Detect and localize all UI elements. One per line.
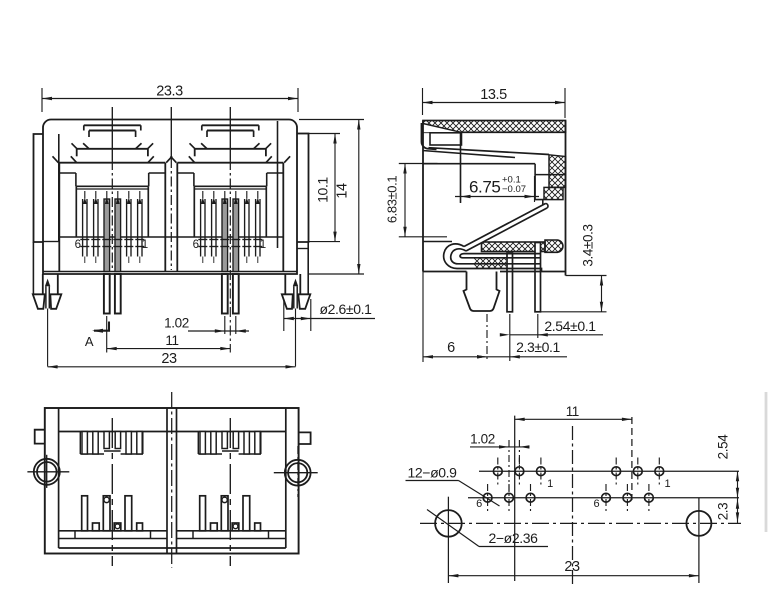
port contact cavity [194, 185, 266, 187]
side view: hatched step block [544, 187, 563, 199]
dimension 10.1 [334, 134, 336, 242]
pcb dimension 1.02 [508, 440, 510, 493]
dimension 23.3 extension lines [41, 88, 43, 112]
bottom view: inner top wall line [59, 431, 286, 433]
bottom view: left mount post circles [34, 459, 60, 485]
port inner groove [59, 172, 76, 174]
svg-text:1.02: 1.02 [470, 432, 495, 447]
front view: right side flange [297, 134, 309, 243]
port long solder legs [104, 274, 110, 314]
svg-text:10.1: 10.1 [315, 177, 331, 203]
side view: solder pin A [507, 253, 513, 312]
dimension 6 side [422, 272, 424, 363]
bottom view: port 1 centerline [111, 418, 113, 566]
svg-text:11: 11 [566, 404, 579, 419]
bottom view: left post crosshair [27, 471, 69, 473]
pcb mounting hole axis centerline [420, 522, 741, 524]
port opening at x=230.3: latch notch top lines [202, 124, 259, 126]
pcb left mounting hole [435, 510, 462, 537]
bottom view: shelf lines [59, 530, 167, 532]
dimension 14 [358, 120, 360, 275]
side view: bottom lines [423, 271, 467, 273]
bottom view: port 2 centerline [229, 418, 231, 566]
svg-text:1: 1 [260, 239, 266, 251]
dimension 3.4 extension lines [566, 275, 607, 277]
svg-text:6.83±0.1: 6.83±0.1 [385, 176, 400, 223]
svg-text:−0.07: −0.07 [502, 184, 526, 195]
svg-text:6: 6 [476, 498, 482, 510]
side view: spring return arm [460, 254, 541, 258]
side view: roof slant upper [429, 148, 550, 155]
bottom view: right mount post circles [285, 460, 311, 486]
svg-text:2.54: 2.54 [716, 434, 731, 460]
svg-text:1: 1 [547, 478, 553, 490]
port centerline [111, 107, 113, 160]
leg foot halves [33, 294, 45, 309]
bottom view: inner side walls [58, 408, 60, 548]
svg-text:23.3: 23.3 [156, 84, 183, 100]
port shelf 2 full width [177, 162, 283, 164]
port inner groove [177, 172, 194, 174]
side view: housing floor line at hook [423, 241, 452, 243]
dimension 11 front [106, 316, 108, 353]
pcb dimension 11 [515, 418, 632, 420]
pcb mid centerline [572, 426, 574, 586]
pcb pin holes group offset 118.4 [612, 467, 621, 476]
pcb group1 centerline [514, 416, 516, 581]
svg-text:14: 14 [335, 183, 351, 199]
bottom view: inner bottom line [59, 547, 286, 549]
leg center barb pin [293, 279, 298, 287]
dimension 6.83 extension lines [399, 163, 438, 165]
port chamfer diagonals lower [171, 156, 177, 162]
leg foot halves [298, 294, 310, 309]
leg neck [299, 274, 301, 294]
port shelf 1 [77, 148, 148, 150]
svg-text:6.75: 6.75 [469, 178, 501, 197]
svg-text:2.54±0.1: 2.54±0.1 [544, 318, 596, 334]
svg-text:6: 6 [593, 498, 599, 510]
bottom view solder tab group offset 118 [200, 496, 206, 531]
dimension 2.54 side [509, 314, 511, 361]
side view: latch window [430, 133, 462, 145]
svg-text:6: 6 [193, 239, 199, 251]
svg-text:2.3: 2.3 [716, 503, 731, 521]
pcb right mounting hole [686, 511, 711, 536]
port opening at x=112.3: latch notch top lines [84, 124, 141, 126]
pcb pin holes group offset 0 [493, 467, 502, 476]
pcb group2 centerline [631, 417, 633, 500]
side view: hatched top wall [423, 121, 566, 133]
port chamfer diagonals upper [190, 143, 196, 149]
dimension 6.75 with tolerance [460, 158, 462, 202]
pcb dimension 2.54 [737, 471, 739, 498]
svg-text:6: 6 [75, 239, 81, 251]
port chamfer diagonals lower [53, 156, 59, 162]
dimension 1.02 front [224, 316, 226, 334]
front view: inner bottom line [43, 271, 297, 273]
leg center barb pin [45, 279, 50, 287]
port long solder legs [222, 274, 228, 314]
side view: contact spring diagonal band [464, 204, 547, 252]
dimension 23.3 [42, 98, 298, 100]
bottom view: right post crosshair [274, 472, 318, 474]
dimension 13.5 extension lines [422, 88, 424, 115]
bottom view: left mount tab [35, 430, 45, 444]
front view: right flange lower edge [307, 242, 309, 294]
front view: left side flange [34, 134, 44, 242]
svg-text:23: 23 [161, 351, 177, 367]
side view: opening right wall with step [535, 164, 543, 206]
svg-text:12−ø0.9: 12−ø0.9 [408, 465, 458, 481]
svg-text:13.5: 13.5 [480, 87, 507, 103]
bottom view: right mount tab [299, 432, 311, 444]
svg-text:3.4±0.3: 3.4±0.3 [581, 224, 596, 266]
side view: top wall taper wedge [423, 124, 461, 133]
svg-text:1: 1 [142, 239, 148, 251]
dimension 13.5 [423, 102, 566, 104]
port contact cavity [76, 185, 148, 187]
side view: opening left wall [460, 133, 462, 203]
svg-text:ø2.6±0.1: ø2.6±0.1 [320, 301, 373, 317]
front view: body mid centerline [170, 107, 172, 158]
pcb dimension 23 [448, 575, 699, 577]
page edge artifact line [765, 392, 768, 532]
svg-text:6: 6 [447, 340, 455, 356]
port chamfer diagonals upper [72, 143, 78, 149]
port shelf 2 full width [59, 162, 165, 164]
port side walls [58, 163, 60, 272]
bottom view: mid centerline [171, 392, 173, 568]
bottom view: outer body rectangle [45, 408, 299, 554]
dimension diameter 2.6 [283, 299, 285, 331]
dimension 6.83 [404, 164, 406, 237]
port contact pins [82, 199, 84, 257]
front view: left flange inner edge [58, 134, 60, 242]
side view: spring hook middle curl [451, 249, 540, 264]
front view: right inner edge line [277, 121, 279, 248]
svg-text:1.02: 1.02 [164, 316, 189, 331]
side view: front bezel rounded corner [421, 123, 436, 149]
svg-text:23: 23 [564, 559, 580, 575]
pcb dimension 2.3 [737, 498, 739, 524]
side view: solder pin B [535, 243, 541, 312]
side view: spring hook outer curl [444, 244, 542, 272]
dimension 10.1 extension lines [297, 133, 340, 135]
dimension 3.4 [601, 276, 603, 312]
side view: hatched contact base [482, 242, 546, 252]
svg-text:2−ø2.36: 2−ø2.36 [489, 530, 539, 546]
dimension 23 front [48, 366, 296, 368]
dimension 2.3 side [486, 314, 488, 362]
bottom view solder tab group offset 0 [82, 496, 88, 531]
front view: connector body outline [43, 120, 297, 275]
bottom view comb slots at x=112.3 [79, 432, 81, 455]
section marker A [94, 322, 109, 331]
port contact pins [200, 199, 202, 257]
side view: body left edge [422, 121, 424, 272]
side view: roof slant lower [423, 151, 516, 158]
side view: hatched lower band [474, 258, 506, 268]
side view: hatched right column [549, 155, 566, 188]
port side walls [176, 163, 178, 272]
svg-text:11: 11 [165, 333, 178, 348]
bottom view comb slots at x=230.3 [197, 432, 199, 455]
side view: snap peg [464, 272, 500, 312]
port shelf 1 [195, 148, 266, 150]
dimension 14 extension lines [299, 119, 364, 121]
front view: contact shelf line [59, 236, 283, 238]
svg-text:1: 1 [664, 478, 670, 490]
svg-text:A: A [85, 334, 94, 349]
pcb label 2-dia2.36 with leader [427, 510, 479, 547]
port centerline [229, 107, 231, 160]
pcb layout: pin hole row lines [479, 470, 739, 472]
svg-text:2.3±0.1: 2.3±0.1 [516, 339, 560, 355]
bottom view: center divider [166, 408, 168, 554]
side view: contact base rounded end cap [545, 240, 563, 252]
leg neck [42, 274, 44, 294]
side view: body right edge [565, 121, 567, 276]
front view: left flange lower edge [32, 242, 34, 294]
side view: opening top line [423, 163, 535, 165]
